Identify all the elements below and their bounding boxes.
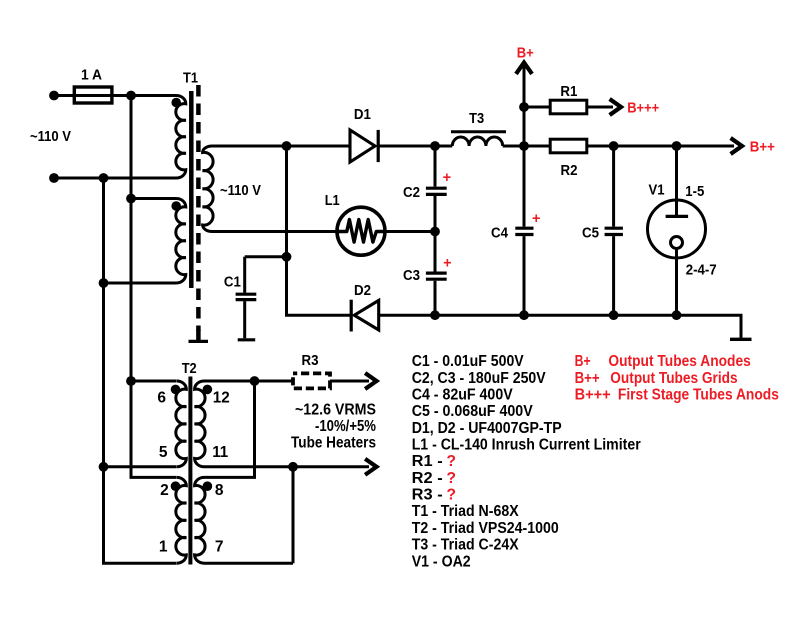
svg-text:B+++: B+++ bbox=[575, 387, 611, 404]
svg-text:Output Tubes Anodes: Output Tubes Anodes bbox=[608, 353, 750, 370]
svg-text:T2: T2 bbox=[182, 361, 197, 377]
svg-text:C3: C3 bbox=[403, 268, 420, 284]
svg-text:?: ? bbox=[447, 487, 456, 504]
svg-text:2: 2 bbox=[160, 482, 169, 499]
svg-text:B+++: B+++ bbox=[627, 101, 659, 117]
svg-text:+: + bbox=[443, 170, 451, 186]
svg-text:B++: B++ bbox=[750, 140, 775, 156]
svg-text:R2 -: R2 - bbox=[412, 470, 443, 487]
svg-text:C1: C1 bbox=[224, 275, 241, 291]
svg-text:2-4-7: 2-4-7 bbox=[686, 263, 717, 279]
svg-text:6: 6 bbox=[157, 390, 166, 407]
svg-text:C1 - 0.01uF 500V: C1 - 0.01uF 500V bbox=[412, 353, 525, 370]
svg-text:R3 -: R3 - bbox=[412, 487, 443, 504]
svg-text:D1: D1 bbox=[354, 107, 371, 123]
svg-text:R3: R3 bbox=[302, 353, 319, 369]
svg-text:7: 7 bbox=[215, 539, 224, 556]
svg-text:~110 V: ~110 V bbox=[220, 183, 261, 199]
svg-text:+: + bbox=[532, 211, 540, 227]
svg-text:8: 8 bbox=[215, 482, 224, 499]
svg-text:?: ? bbox=[447, 470, 456, 487]
svg-text:V1: V1 bbox=[649, 183, 665, 199]
svg-text:V1 - OA2: V1 - OA2 bbox=[412, 553, 471, 570]
svg-text:R1 -: R1 - bbox=[412, 453, 443, 470]
svg-text:C5: C5 bbox=[582, 226, 599, 242]
svg-text:?: ? bbox=[447, 453, 456, 470]
svg-text:Tube Heaters: Tube Heaters bbox=[291, 435, 376, 452]
svg-text:~12.6 VRMS: ~12.6 VRMS bbox=[295, 402, 376, 419]
svg-text:~110 V: ~110 V bbox=[30, 129, 71, 145]
svg-text:R1: R1 bbox=[560, 84, 577, 100]
svg-text:B+: B+ bbox=[575, 353, 591, 370]
svg-text:-10%/+5%: -10%/+5% bbox=[315, 418, 376, 435]
svg-text:1 A: 1 A bbox=[81, 68, 102, 84]
svg-text:C4 - 82uF 400V: C4 - 82uF 400V bbox=[412, 387, 514, 404]
svg-text:L1: L1 bbox=[325, 193, 340, 209]
svg-text:T3 - Triad C-24X: T3 - Triad C-24X bbox=[412, 537, 520, 554]
svg-text:C5 - 0.068uF 400V: C5 - 0.068uF 400V bbox=[412, 403, 534, 420]
svg-text:1-5: 1-5 bbox=[685, 184, 704, 200]
svg-text:R2: R2 bbox=[561, 163, 578, 179]
svg-text:T2 - Triad VPS24-1000: T2 - Triad VPS24-1000 bbox=[412, 520, 559, 537]
svg-text:L1 - CL-140 Inrush Current Lim: L1 - CL-140 Inrush Current Limiter bbox=[412, 437, 641, 454]
svg-text:T1: T1 bbox=[183, 71, 198, 87]
svg-text:+: + bbox=[443, 256, 451, 272]
svg-text:5: 5 bbox=[159, 444, 168, 461]
svg-text:C2: C2 bbox=[403, 185, 420, 201]
svg-text:First Stage Tubes Anods: First Stage Tubes Anods bbox=[618, 387, 779, 404]
svg-text:B+: B+ bbox=[517, 46, 534, 62]
svg-text:D1, D2 - UF4007GP-TP: D1, D2 - UF4007GP-TP bbox=[412, 420, 562, 437]
svg-text:Output Tubes Grids: Output Tubes Grids bbox=[610, 370, 737, 387]
svg-text:D2: D2 bbox=[354, 283, 371, 299]
svg-text:T3: T3 bbox=[469, 111, 484, 127]
svg-text:C4: C4 bbox=[491, 226, 508, 242]
svg-text:12: 12 bbox=[213, 390, 230, 407]
svg-text:1: 1 bbox=[159, 539, 168, 556]
svg-text:11: 11 bbox=[212, 444, 228, 461]
svg-text:C2, C3 - 180uF 250V: C2, C3 - 180uF 250V bbox=[412, 370, 547, 387]
svg-text:B++: B++ bbox=[575, 370, 600, 387]
svg-text:T1 - Triad N-68X: T1 - Triad N-68X bbox=[412, 503, 520, 520]
